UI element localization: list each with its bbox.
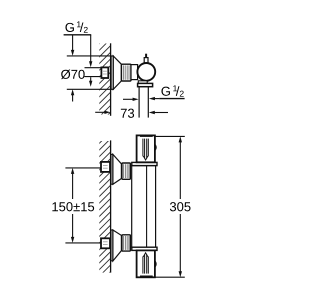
upper flange xyxy=(132,162,157,165)
body tube between flanges xyxy=(132,166,156,248)
escutcheon base ring 2 xyxy=(111,230,113,261)
dimension 150±15: upper extension line xyxy=(65,167,101,169)
label G 1/2 (right, outlet) : text "G 1/2" xyxy=(161,87,169,96)
dimension 73: right arrow (points left at pipe) xyxy=(154,112,168,114)
dimension text "305" xyxy=(170,202,191,211)
concealed supply pipe (top view) xyxy=(85,67,102,69)
upper handle side button xyxy=(154,145,157,150)
wall hatch (top view) xyxy=(99,44,110,115)
dimension Ø70: upper arrow (hangs from label underline) xyxy=(72,35,74,50)
outlet flange xyxy=(138,83,153,86)
wall hatch (front view) xyxy=(99,141,110,273)
lower handle side button xyxy=(154,261,157,266)
union nut (top view) xyxy=(121,64,131,81)
dimension Ø70: top extension line xyxy=(67,55,111,57)
upper handle grip knurl xyxy=(142,139,144,157)
upper handle xyxy=(137,135,155,162)
lower handle cap band xyxy=(140,276,153,278)
body tube inner line xyxy=(146,166,148,248)
escutcheon cone 2 xyxy=(113,230,122,261)
escutcheon cone 1 xyxy=(113,154,122,184)
wall surface line (front view) xyxy=(110,140,112,272)
escutcheon base ring 1 xyxy=(111,154,113,184)
dimension text "73" xyxy=(121,109,134,118)
dimension 305: lower extension line xyxy=(155,276,185,278)
escutcheon cone (top view) xyxy=(113,56,121,89)
collar below circle xyxy=(138,81,147,84)
dimension Ø70: bottom extension line xyxy=(67,88,111,90)
knob base on top of body circle xyxy=(144,58,148,64)
leader line from G1/2 to concealed pipe (arrow down) xyxy=(90,35,92,62)
knob pin xyxy=(145,54,147,58)
dimension 150±15: dimension line with arrows xyxy=(72,173,74,199)
dimension text "150±15" xyxy=(52,202,94,211)
dimension 305: upper extension line xyxy=(155,135,185,137)
wall socket square (top view) xyxy=(101,67,108,78)
dimension Ø70: lower arrow xyxy=(72,95,74,102)
dimension 305: dimension line with arrows xyxy=(179,142,181,200)
wall socket square 2 (lower) xyxy=(101,238,110,248)
label G 1/2 (top left) : text "G 1/2" xyxy=(65,23,73,32)
underline of right G 1/2 label xyxy=(159,98,184,100)
wall surface line (top view) xyxy=(110,43,112,116)
thermostat body circle (top view) xyxy=(137,63,155,81)
lower handle xyxy=(137,250,155,277)
escutcheon base ring (top view) xyxy=(111,56,113,89)
union nut 1 xyxy=(122,163,130,179)
union nut 2 xyxy=(122,235,130,251)
lower flange xyxy=(132,247,157,250)
dimension 73: left arrow (points right at wall) xyxy=(95,111,105,113)
lower handle grip knurl xyxy=(142,256,144,273)
outlet pipe (top view) xyxy=(138,87,140,118)
underline of G 1/2 label xyxy=(64,34,92,36)
dimension 150±15: lower extension line xyxy=(65,242,101,244)
arrow at left of pipe (points right) xyxy=(123,98,133,100)
dimension text "Ø70" xyxy=(61,69,85,79)
upper handle cap band xyxy=(140,135,153,137)
neck between nut and body (top view) xyxy=(131,65,138,80)
leader arrow from G1/2 to pipe (points left) xyxy=(154,98,159,100)
second leader arrow segment below supply pipe xyxy=(90,77,92,81)
wall socket square 1 (upper) xyxy=(101,162,110,172)
